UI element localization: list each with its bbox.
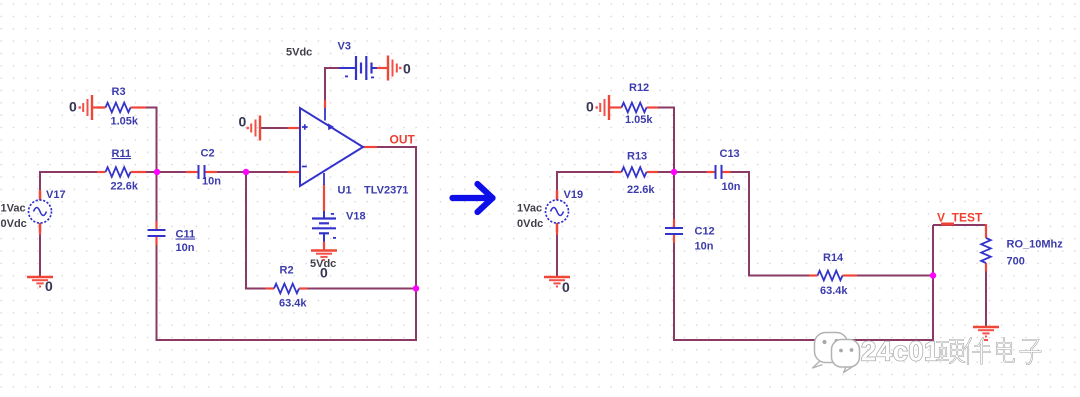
wire junction A up branch: R3 right lead to vertical [138,108,157,173]
capacitor C11 [148,221,166,245]
pin V17 top stub [39,190,41,200]
svg-text:10n: 10n [695,241,714,253]
svg-text:OUT: OUT [390,133,416,147]
pin V19 bottom stub [556,223,558,235]
svg-text:V18: V18 [346,211,366,223]
svg-text:0: 0 [239,114,247,130]
pin R3 ground lead [92,106,105,108]
svg-text:1Vac: 1Vac [517,203,542,215]
svg-text:5Vdc: 5Vdc [286,47,312,59]
wire V3 left lead corner down to opamp V+ [325,68,339,101]
wire R12 right corner down to junction C [654,108,674,173]
svg-text:C12: C12 [695,226,715,238]
pin C2 right extension [213,171,217,173]
svg-text:C11: C11 [176,229,196,241]
pin R13 right extension [654,171,658,173]
wire OUT from opamp to right vertical and down to rail [371,147,416,341]
svg-text:0: 0 [403,61,411,77]
ground below V17 [27,277,53,287]
pin R14 right extension [851,274,857,276]
svg-text:R11: R11 [112,148,132,160]
pin opamp V- vertical [323,185,325,212]
ground right of V3 (mirrored) [388,56,402,81]
junction C dot [671,169,677,175]
svg-text:0: 0 [69,99,77,115]
wire junction A to C2 [158,171,191,173]
pin R11 right extension [138,171,146,173]
svg-text:0Vdc: 0Vdc [517,218,543,230]
svg-text:0Vdc: 0Vdc [1,218,27,230]
RO ground extra dash [984,339,988,341]
op-amp U1 triangle [300,108,363,186]
svg-text:C2: C2 [201,148,215,160]
resistor R2 [266,284,308,294]
wire V19 top to R13 row [557,172,614,190]
svg-text:700: 700 [1007,256,1025,268]
svg-text:0: 0 [320,265,328,281]
resistor R11 [97,167,139,177]
AC source V19 [546,191,569,232]
resistor R3 [97,103,139,113]
svg-text:1.05k: 1.05k [625,114,653,126]
pin V17 bottom stub [39,223,41,235]
pin V18 bottom [323,242,325,251]
watermark wechat logo front bubble [832,340,860,373]
junction OUT/feedback dot [413,285,419,291]
wire RO bottom to ground [985,270,987,327]
svg-text:R13: R13 [627,151,647,163]
wire V17 top to R11 row [40,172,98,190]
svg-text:63.4k: 63.4k [820,285,848,297]
wire C12 bottom to rail [673,243,675,342]
battery V3 [339,56,377,80]
svg-text:63.4k: 63.4k [279,298,307,310]
op-amp V- pin inside [323,173,325,185]
wire R11 right to junction A [138,171,158,173]
pin C2 left extension [186,171,190,173]
svg-text:V3: V3 [338,41,351,53]
AC source V17 [29,191,52,232]
wire junction A down to C11 [156,172,158,222]
ground below V18 [311,251,337,261]
pin opamp V+ vertical [324,100,326,109]
watermark glyph dian (electric) [997,338,1014,362]
wire opamp plus input from ground lead [260,127,293,129]
wire junction B down to feedback row [246,172,266,289]
bottom rail right circuit [673,339,934,341]
resistor RO_10Mhz vertical [981,230,991,272]
junction A dot [154,169,160,175]
pin R12 right extension [654,106,658,108]
svg-text:V_TEST: V_TEST [937,211,983,225]
pin R12 ground lead [609,106,613,108]
pin R3 right extension [138,106,146,108]
svg-text:R14: R14 [823,252,844,264]
ground left of R3 [79,95,93,120]
wire junction C to C13 [674,171,708,173]
capacitor C12 [665,219,683,243]
svg-text:1.05k: 1.05k [111,116,139,128]
svg-text:24c01: 24c01 [861,336,940,367]
battery V18 [312,211,336,242]
watermark glyph ying (hard) [937,340,964,363]
resistor R14 [809,271,851,281]
svg-text:0: 0 [586,99,594,115]
svg-text:RO_10Mhz: RO_10Mhz [1007,239,1064,251]
svg-text:10n: 10n [176,242,195,254]
ground at opamp plus input [247,116,261,141]
svg-text:R12: R12 [629,82,649,94]
junction B dot [243,169,249,175]
op-amp V+ pin inside with arrow [324,108,326,121]
svg-text:10n: 10n [202,176,221,188]
resistor R13 [613,167,655,177]
wire V17 bottom to ground [39,234,41,277]
wire rail up to junction D [932,225,934,341]
watermark glyph jian (piece) [965,338,990,364]
capacitor C13 [707,165,731,179]
svg-text:0: 0 [45,278,53,294]
wire R14 right to junction D [851,275,933,277]
pin V19 top stub [556,190,558,200]
wire V19 bottom to ground [556,234,558,277]
pin V3 right lead [377,67,388,69]
svg-text:10n: 10n [722,181,741,193]
junction D dot [930,272,936,278]
V_TEST alias marker [941,223,954,226]
wire C13 right corner down to R14 row [727,172,809,276]
wire junction B to opamp minus input [246,171,293,173]
svg-text:V19: V19 [564,189,584,201]
ground left of R12 [596,95,610,120]
svg-text:C13: C13 [720,148,740,160]
svg-text:1Vac: 1Vac [1,203,26,215]
pin opamp output [363,146,377,148]
capacitor C2 [190,165,214,179]
wire V_TEST horizontal [933,224,986,226]
watermark wechat logo back bubble [813,333,848,369]
watermark glyph zi (child) [1020,340,1041,364]
svg-text:R3: R3 [112,86,126,98]
wire R13 right to junction C [654,171,674,173]
ground below V19 [544,277,570,287]
op-amp minus sign [302,166,307,168]
svg-text:R2: R2 [280,265,294,277]
svg-text:22.6k: 22.6k [627,184,655,196]
ground below RO [973,327,999,337]
wire C11 bottom to rail [156,245,158,341]
pin opamp minus input [288,171,301,173]
pin opamp plus input [288,127,301,129]
svg-text:0: 0 [562,279,570,295]
wire R2 right to OUT vertical [307,288,417,290]
svg-text:22.6k: 22.6k [111,181,139,193]
resistor R12 [613,103,655,113]
wire C2 to junction B [213,171,247,173]
svg-text:U1: U1 [338,185,352,197]
wire junction C down to C12 [673,172,675,220]
bottom rail left circuit [156,339,418,341]
svg-text:TLV2371: TLV2371 [364,185,408,197]
op-amp plus sign [302,124,308,130]
svg-text:V17: V17 [46,189,66,201]
